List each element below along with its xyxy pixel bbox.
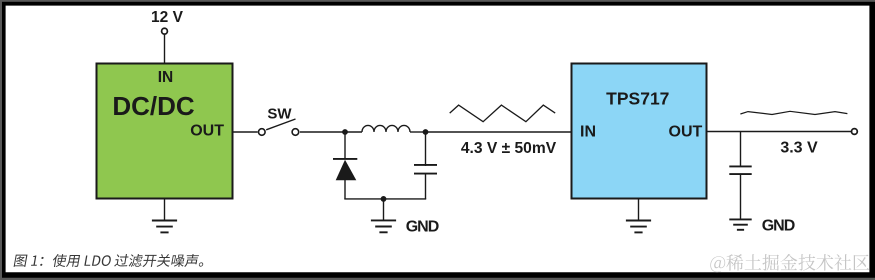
inductor L1	[362, 125, 410, 132]
watermark @稀土掘金技术社区	[710, 254, 869, 272]
wire inductor to node B	[410, 131, 426, 133]
wire DC/DC OUT to switch	[233, 131, 258, 133]
node B junction dot (filter output)	[423, 129, 429, 135]
ground below C2	[729, 219, 751, 229]
switch SW lever	[266, 119, 295, 130]
svg-text:3.3 V: 3.3 V	[780, 139, 818, 156]
switch SW pole circle	[259, 129, 266, 136]
svg-text:TPS717: TPS717	[606, 89, 669, 109]
wire switch to node A	[300, 131, 345, 133]
capacitor C2 (output cap)	[729, 132, 751, 220]
wire 12V to DC/DC IN	[164, 35, 166, 64]
ground below node C	[371, 199, 396, 232]
wire TPS717 OUT to output terminal	[707, 131, 852, 133]
caption 图1: 使用 LDO 过滤开关噪声	[14, 254, 204, 267]
svg-text:OUT: OUT	[669, 124, 703, 141]
wire diode anode to cap bottom (ground rail)	[344, 198, 426, 200]
output smooth waveform	[740, 111, 847, 114]
svg-text:4.3 V ± 50mV: 4.3 V ± 50mV	[461, 140, 557, 157]
node C junction dot on ground rail	[381, 196, 387, 202]
ground below DC/DC	[152, 199, 177, 233]
svg-text:IN: IN	[158, 69, 174, 86]
svg-text:12 V: 12 V	[151, 9, 184, 26]
svg-text:DC/DC: DC/DC	[112, 91, 195, 121]
svg-text:OUT: OUT	[190, 122, 224, 139]
node A junction dot (switch node)	[342, 129, 348, 135]
converter U1 DC/DC box	[97, 64, 233, 199]
diode D1 (freewheel, cathode up)	[333, 132, 357, 199]
svg-text:GND: GND	[406, 219, 439, 236]
regulator U2 TPS717 box	[572, 64, 707, 199]
node 12V terminal circle	[162, 28, 168, 34]
wire node A to inductor	[345, 131, 362, 133]
switch SW throw circle	[292, 129, 299, 136]
ripple waveform (triangle wave)	[450, 105, 556, 122]
capacitor C1 (filter cap)	[414, 132, 437, 199]
svg-text:GND: GND	[762, 218, 795, 235]
ground below TPS717	[626, 199, 651, 233]
output terminal circle	[852, 129, 858, 135]
svg-text:SW: SW	[267, 105, 292, 122]
wire node B to LDO IN	[426, 131, 572, 133]
svg-text:IN: IN	[580, 124, 596, 141]
